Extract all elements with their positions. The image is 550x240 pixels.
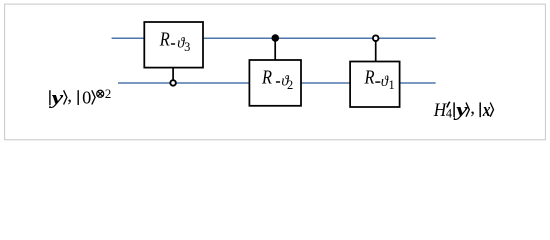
svg-text:x: x [482,100,491,121]
wire: vertical control link from R-theta3 box to open control [172,68,174,83]
node: open control circle on top wire [373,35,379,41]
wire: vertical control link from filled control to R-theta2 box [274,38,276,60]
svg-text:y: y [49,88,64,109]
gate box R_-theta2 [249,60,301,106]
wire: bottom qubit line [118,82,436,84]
label R_-theta1 [364,67,395,92]
gate box R_-theta3 [144,22,203,68]
rangle [92,90,95,104]
label R_-theta3 [159,28,190,54]
node: open control circle on bottom wire [170,80,176,86]
svg-text:0: 0 [82,88,91,108]
wire: vertical control link from open control to R-theta1 box [375,38,377,61]
otimes superscript [97,90,104,97]
svg-text:,: , [67,86,72,107]
label R_-theta2 [261,66,293,92]
svg-text:,: , [470,97,475,118]
svg-text:2: 2 [105,87,111,101]
rangle [64,90,67,104]
svg-text:R: R [159,28,170,50]
outer frame [5,4,546,140]
svg-text:R: R [364,67,375,89]
wire: top qubit line [112,37,436,39]
node label: input state |y>,|0>^(x)2 [49,86,111,109]
node label: output state H'4|y>,|x> [433,97,494,120]
rangle [490,103,493,117]
svg-text:2: 2 [287,78,293,92]
node: filled control dot on top wire [272,34,280,42]
svg-text:R: R [261,66,272,88]
gate box R_-theta1 [350,62,400,108]
rangle [466,103,469,117]
svg-text:1: 1 [389,78,395,92]
svg-text:3: 3 [184,40,190,54]
svg-text:4: 4 [446,107,452,121]
